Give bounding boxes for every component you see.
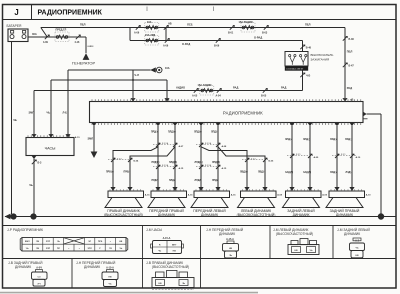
svg-text:ЛВД(+): ЛВД(+) (240, 172, 248, 174)
svg-text:ЛЗД(+): ЛЗД(+) (330, 139, 338, 141)
wire radio drop x167 (166, 80, 168, 98)
svg-text:ЧЬ: ЧЬ (119, 248, 122, 250)
svg-text:10А: 10А (165, 67, 170, 70)
radio pin front-left- (215, 123, 220, 127)
svg-text:ЛСБ: ЛСБ (187, 23, 193, 27)
svg-text:15А ЗРД: 15А ЗРД (145, 34, 155, 37)
svg-text:Ч-Л: Ч-Л (134, 73, 139, 77)
svg-text:2 2 3 4: 2 2 3 4 (205, 164, 212, 167)
radio pin +B arrow (342, 98, 347, 101)
svg-text:ДИНАМИК: ДИНАМИК (219, 232, 235, 236)
svg-text:РАД: РАД (233, 86, 238, 90)
wire tweeter-R branch2 (130, 147, 175, 187)
svg-text:15А РАДИО: 15А РАДИО (239, 21, 253, 24)
svg-text:В-47: В-47 (349, 65, 355, 68)
wire acc bus O-RAD (130, 40, 303, 42)
generator arrow (83, 53, 90, 60)
svg-text:ЧЬ: ЧЬ (47, 110, 51, 114)
connector B-47 (343, 63, 347, 67)
wire mid y80 (51, 79, 167, 81)
svg-text:ЛЗД(-): ЛЗД(-) (345, 139, 352, 141)
speaker rear right (334, 187, 339, 191)
inline connector A-10 (332, 155, 356, 157)
svg-text:30А: 30А (32, 32, 37, 36)
svg-text:ПЛД2: ПЛД2 (169, 180, 176, 182)
inline connector B-05 tweeter (242, 159, 268, 161)
svg-text:ЧЬ: ЧЬ (57, 241, 60, 243)
svg-text:ЛЧ: ЛЧ (37, 283, 41, 285)
radio pin rear-right+ (334, 123, 339, 127)
wire diagonal to top bus (41, 28, 47, 37)
svg-text:А-07: А-07 (179, 145, 185, 148)
inline connector A-15 FR (153, 166, 178, 168)
svg-text:LOCK ACC ON ST: LOCK ACC ON ST (286, 67, 304, 70)
fuse 15A AUDIO (200, 86, 214, 96)
fuse 15A RADIO (241, 23, 255, 33)
svg-text:(ВЫСОКОЧАСТОТНЫЙ): (ВЫСОКОЧАСТОТНЫЙ) (152, 265, 189, 269)
svg-text:4-09: 4-09 (43, 41, 48, 44)
radio pin arrow x167 (164, 98, 169, 101)
title J cell divider (31, 5, 33, 20)
radio pin front-right- (172, 123, 177, 127)
wire clock drop x51 (50, 80, 52, 135)
svg-text:А-04: А-04 (216, 94, 222, 97)
wire generator drop (85, 37, 87, 53)
bottom scan shadow (0, 292, 258, 294)
fuse 15A ZRD (145, 36, 159, 46)
table row A divider x200 (200, 226, 202, 289)
svg-text:НБ: НБ (168, 23, 172, 26)
connector B-45 (300, 73, 304, 77)
radio ground pin (91, 123, 96, 127)
speaker front right (155, 187, 160, 191)
svg-text:НВ: НВ (355, 255, 359, 257)
svg-text:ЧЬ: ЧЬ (158, 251, 162, 253)
svg-text:А-15: А-15 (179, 167, 185, 170)
svg-text:ЧБ: ЧБ (13, 118, 17, 122)
wire battery negative down-left (11, 42, 13, 215)
svg-text:ПРД(+): ПРД(+) (151, 132, 159, 134)
svg-text:АУДИО: АУДИО (176, 86, 185, 90)
svg-text:ПБЛ: ПБЛ (305, 23, 311, 27)
svg-text:ДИНАМИК: ДИНАМИК (344, 232, 360, 236)
svg-text:15А АУДИО: 15А АУДИО (198, 84, 212, 87)
ignition switch U ignition (285, 52, 308, 67)
radio ground arrow (91, 152, 98, 159)
table mid separator (3, 258, 397, 260)
wire tweeter-L branch1 (201, 147, 247, 187)
svg-text:ЛПД(В): ЛПД(В) (212, 162, 220, 164)
svg-text:А-15: А-15 (145, 193, 151, 196)
svg-text:БАТАРЕЯ: БАТАРЕЯ (7, 24, 23, 28)
svg-text:J-М ЧАСЫ: J-М ЧАСЫ (146, 228, 162, 232)
connector B-48 (343, 36, 347, 40)
table top separator (3, 225, 397, 227)
svg-text:РАД: РАД (281, 86, 286, 90)
inline connector A-07 (153, 144, 178, 146)
svg-text:ДИНАМИК: ДИНАМИК (15, 265, 31, 269)
svg-text:ЛПД(В): ЛПД(В) (195, 162, 203, 164)
svg-text:0.85Ч: 0.85Ч (88, 46, 94, 48)
wire right ground drop (380, 114, 382, 215)
svg-text:2 2 3 4: 2 2 3 4 (205, 142, 212, 145)
go-to symbol cigarette lighter (150, 67, 156, 72)
svg-text:ЛЗД(-): ЛЗД(-) (346, 172, 353, 174)
svg-text:ЗАД(Л): ЗАД(Л) (303, 171, 311, 174)
connector clock ground (32, 160, 36, 164)
table row B divider x72 (71, 259, 73, 289)
svg-text:А-09: А-09 (322, 193, 328, 196)
inline connector A-15 FL (196, 166, 221, 168)
svg-text:ЗЛД(+): ЗЛД(+) (285, 139, 293, 141)
connector B-03 (264, 25, 268, 29)
radio pin rear-right- (349, 123, 354, 127)
svg-text:А-15-А: А-15-А (163, 237, 171, 240)
svg-text:ЧЬ: ЧЬ (108, 284, 112, 286)
wire clock drop x68 (67, 70, 69, 135)
svg-text:2 2 3 4: 2 2 3 4 (162, 142, 169, 145)
junction dot x133 y80 (132, 79, 134, 81)
wire into ignition switch (302, 41, 304, 52)
svg-text:НВ: НВ (108, 277, 112, 279)
connector B-05 (263, 88, 267, 92)
title separator line (3, 19, 397, 21)
svg-text:ЗМЛ: ЗМЛ (29, 110, 35, 114)
wire radio drop x133 (132, 70, 134, 98)
svg-text:ПРД(В): ПРД(В) (152, 162, 160, 164)
svg-text:В-05: В-05 (261, 94, 267, 97)
svg-text:А-08: А-08 (277, 193, 283, 196)
svg-text:НВ: НВ (119, 241, 123, 243)
svg-text:ЛВД(-): ЛВД(-) (258, 172, 265, 174)
connector A-06 acc (165, 38, 169, 42)
svg-text:ЗПЛ: ЗПЛ (87, 248, 92, 250)
radio connector pinout A1 (20, 238, 22, 252)
svg-text:ЛПД(-): ЛПД(-) (211, 132, 218, 134)
svg-text:ВНТ: ВНТ (172, 244, 177, 246)
table row A divider x142 (142, 226, 144, 259)
svg-text:В-46: В-46 (306, 46, 312, 49)
radio right pin ANT (363, 112, 367, 117)
svg-text:ЗМЛ: ЗМЛ (88, 137, 94, 141)
svg-text:А-06: А-06 (134, 31, 140, 34)
svg-text:ЧЬ: ЧЬ (229, 255, 233, 257)
svg-text:ЧЬ: ЧЬ (29, 183, 33, 187)
svg-text:В-48: В-48 (349, 38, 355, 41)
svg-text:ПРВ(+): ПРВ(+) (106, 172, 114, 174)
svg-text:А-15-А: А-15-А (226, 238, 234, 241)
connector NB top (164, 25, 168, 29)
svg-text:ЛПД2: ЛПД2 (212, 180, 219, 182)
svg-text:БМЛ: БМЛ (25, 241, 30, 243)
svg-text:ПБЛ: ПБЛ (347, 50, 353, 54)
wire clock ground (33, 159, 35, 214)
svg-text:НВ: НВ (158, 283, 162, 285)
right tweeter connector pinout B3 (152, 278, 194, 288)
svg-text:ПРД2: ПРД2 (152, 180, 159, 182)
svg-text:В-06: В-06 (214, 44, 220, 47)
svg-text:ДИНАМИК: ДИНАМИК (84, 265, 100, 269)
svg-text:Б-05: Б-05 (269, 161, 275, 163)
svg-text:2 2 3 4: 2 2 3 4 (162, 164, 169, 167)
svg-text:ПРЕД.ГЛ: ПРЕД.ГЛ (56, 29, 67, 32)
svg-text:А-06: А-06 (163, 44, 169, 47)
radio pin front-right+ (155, 123, 160, 127)
svg-text:А-05: А-05 (192, 94, 198, 97)
wire tweeter-R branch1 (113, 147, 158, 187)
svg-text:ЛПД2: ЛПД2 (195, 180, 202, 182)
connector A-05 (194, 88, 198, 92)
wire mid y91 audio feed (34, 90, 303, 92)
svg-text:А-15: А-15 (231, 193, 237, 196)
svg-text:ЗЛД(-): ЗЛД(-) (303, 139, 310, 141)
speaker right tweeter (110, 187, 115, 191)
wire radio ground (93, 126, 95, 152)
table row A divider x333 (332, 226, 334, 259)
clock ground pin (31, 156, 36, 160)
ground junction clock (30, 213, 36, 219)
svg-text:ПБЛ: ПБЛ (80, 23, 86, 27)
wire top bus PBL (41, 27, 345, 29)
clock U clock box (26, 138, 74, 156)
inline connector A-08 (196, 144, 221, 146)
table row A divider x270 (269, 226, 271, 259)
svg-text:ПРВ(-): ПРВ(-) (124, 172, 131, 174)
svg-text:ЧЬ: ЧЬ (182, 283, 186, 285)
wire +B drop (344, 28, 346, 99)
clock pin arrows (31, 134, 36, 137)
svg-text:ЧЬ: ЧЬ (355, 248, 359, 250)
ground G-01 symbol (5, 214, 11, 220)
svg-text:ВЫКЛЮЧАТЕЛЬ: ВЫКЛЮЧАТЕЛЬ (311, 53, 334, 57)
wire battery positive feed (28, 36, 86, 38)
fusible link main fuse (55, 32, 69, 42)
svg-text:А-09: А-09 (314, 156, 320, 159)
title bar tick artifact 1 (146, 7, 148, 12)
svg-text:О-РАД: О-РАД (254, 36, 262, 40)
svg-text:ЛБ: ЛБ (36, 248, 39, 250)
svg-text:А-0Ч: А-0Ч (36, 267, 42, 270)
svg-text:НВ: НВ (173, 251, 177, 253)
svg-text:ГЕНЕРАТОР: ГЕНЕРАТОР (72, 61, 96, 66)
radio pin rear-left+ (289, 123, 294, 127)
svg-text:ПРБ: ПРБ (98, 241, 103, 243)
svg-text:ЛБ: ЛБ (36, 241, 39, 243)
connector B-01 (230, 25, 234, 29)
svg-text:А-10: А-10 (366, 193, 372, 196)
svg-text:ЛЗД(+): ЛЗД(+) (330, 172, 338, 174)
speaker rear left (289, 187, 294, 191)
svg-text:ЗПР: ЗПР (46, 241, 51, 243)
svg-text:ЧЬ: ЧЬ (309, 250, 313, 252)
svg-text:РАДИОПРИЕМНИК: РАДИОПРИЕМНИК (38, 10, 103, 17)
radio pin rear-left- (307, 123, 312, 127)
fuse 10A (145, 23, 159, 33)
svg-text:ЗЛП: ЗЛП (46, 248, 51, 250)
connector A-06 top (136, 25, 140, 29)
svg-text:А-15-А: А-15-А (106, 267, 114, 270)
svg-text:ПЛД(+): ПЛД(+) (168, 132, 176, 134)
svg-text:ЧАСЫ: ЧАСЫ (45, 146, 56, 150)
svg-text:J-Р РАДИОПРИЕМНИК: J-Р РАДИОПРИЕМНИК (7, 228, 43, 232)
wire vert x166 bus link (165, 28, 167, 41)
svg-text:А-15: А-15 (222, 167, 228, 170)
svg-text:Ч-Б: Ч-Б (306, 75, 310, 78)
connector B-06 (216, 38, 220, 42)
wire tweeter-L branch2 (218, 147, 265, 187)
svg-text:ЧЬ: ЧЬ (26, 248, 29, 250)
svg-text:А-08: А-08 (222, 145, 228, 148)
radio receiver U radio box (90, 102, 364, 123)
speaker front left (198, 187, 203, 191)
connector C-09 on battery feed (45, 35, 49, 39)
svg-text:ЛПД(+): ЛПД(+) (194, 132, 202, 134)
svg-text:J: J (14, 8, 18, 17)
inline connector A-09 (287, 155, 313, 157)
title bar tick artifact 2 (213, 7, 215, 12)
radio right pin stub (364, 118, 368, 120)
wire vert x130 bus link (129, 28, 131, 41)
svg-text:4-16: 4-16 (75, 41, 80, 44)
svg-text:ПЛД(В): ПЛД(В) (169, 162, 177, 164)
table row B divider x142 (142, 259, 144, 289)
svg-text:ЗАЖИГАНИЯ: ЗАЖИГАНИЯ (311, 57, 330, 61)
svg-text:А-15: А-15 (75, 136, 81, 139)
svg-text:10А: 10А (147, 21, 152, 24)
svg-text:В-01: В-01 (228, 31, 234, 34)
wire clock drop x34 (33, 91, 35, 135)
svg-text:РАД: РАД (347, 86, 352, 90)
connector C-16 (76, 35, 80, 39)
connector A-04 (217, 88, 221, 92)
connector B-46 (300, 45, 304, 49)
svg-text:Б-04: Б-04 (134, 160, 140, 163)
speaker left tweeter (244, 187, 249, 191)
ground bus wire (5, 216, 396, 218)
svg-text:О-РАД: О-РАД (182, 42, 190, 46)
battery BATTERY box (8, 29, 28, 42)
wire ignition switch output (302, 71, 304, 91)
inline connector B-04 tweeter (108, 159, 133, 161)
svg-text:РАДИОПРИЕМНИК: РАДИОПРИЕМНИК (223, 110, 263, 115)
svg-text:В-03: В-03 (262, 31, 268, 34)
svg-text:(ВЫСОКОЧАСТОТНЫЙ): (ВЫСОКОЧАСТОТНЫЙ) (276, 232, 313, 236)
svg-text:А-15: А-15 (188, 193, 194, 196)
radio pin arrow x133 (130, 98, 135, 101)
wire mid y70 (68, 69, 151, 71)
svg-text:А-10: А-10 (356, 156, 362, 159)
ground junction right (378, 213, 384, 219)
svg-text:НВ: НВ (229, 248, 233, 250)
svg-text:НВ: НВ (294, 250, 298, 252)
radio pin front-left+ (198, 123, 203, 127)
svg-text:Л-Б: Л-Б (63, 110, 68, 114)
svg-text:ЗАД(Л): ЗАД(Л) (285, 171, 293, 174)
left tweeter connector pinout A4 (288, 245, 319, 255)
svg-text:Б-3: Б-3 (38, 162, 43, 165)
